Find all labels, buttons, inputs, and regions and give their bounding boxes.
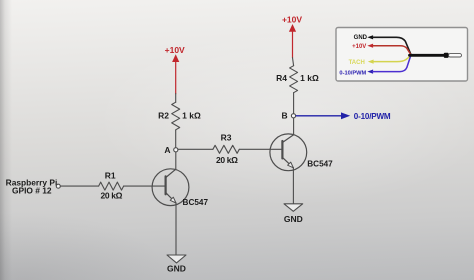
wire Q1 emitter to ground	[175, 203, 177, 255]
output arrow 0-10/PWM	[296, 112, 350, 119]
svg-text:BC547: BC547	[183, 198, 209, 207]
wire R2 to node A	[175, 130, 177, 148]
power arrow +10V left	[172, 54, 179, 93]
inset connector pin	[449, 54, 462, 57]
inset connector crimp	[444, 53, 449, 58]
svg-text:0-10/PWM: 0-10/PWM	[339, 70, 366, 76]
transistor Q2	[270, 134, 307, 171]
inset +10V arrowhead	[367, 44, 373, 48]
svg-text:R4: R4	[276, 73, 287, 83]
resistor R4	[290, 66, 298, 93]
svg-text:GND: GND	[167, 264, 186, 274]
resistor R2	[172, 102, 180, 130]
svg-text:R2: R2	[158, 110, 169, 120]
wire R1 to Q1 base	[124, 185, 165, 187]
inset GND wire (black)	[373, 37, 411, 54]
R1 value labels	[100, 171, 122, 201]
transistor Q1	[152, 169, 189, 206]
svg-text:1 kΩ: 1 kΩ	[182, 111, 201, 121]
R2 value labels	[158, 110, 201, 120]
power arrow +10V right	[289, 24, 296, 58]
wire R3 to Q2 base	[239, 148, 282, 150]
wire Q2 emitter to ground	[292, 168, 294, 204]
node B	[291, 114, 295, 118]
svg-text:GND: GND	[284, 214, 303, 224]
inset cable sheath	[410, 54, 446, 57]
wire node B to Q2 collector	[293, 118, 295, 135]
inset cable photo box	[336, 28, 468, 82]
resistor R1	[99, 182, 124, 190]
svg-text:0-10/PWM: 0-10/PWM	[354, 112, 391, 121]
svg-text:B: B	[282, 111, 288, 121]
svg-text:20 kΩ: 20 kΩ	[216, 155, 238, 165]
Raspberry Pi GPIO # 12 label	[6, 177, 58, 195]
svg-text:A: A	[164, 145, 170, 155]
svg-text:R1: R1	[105, 171, 116, 181]
wire arrow to R4	[293, 58, 294, 66]
inset GND arrowhead	[367, 35, 373, 39]
inset 0-10/PWM arrowhead	[367, 70, 373, 74]
node A	[174, 148, 178, 152]
R4 value labels	[276, 73, 319, 83]
R3 value labels	[216, 133, 238, 165]
svg-text:R3: R3	[221, 133, 232, 143]
wire arrow to R2	[175, 94, 177, 103]
svg-text:+10V: +10V	[165, 45, 185, 55]
wire node A to Q1 collector	[175, 152, 177, 169]
wire R4 to node B	[293, 93, 295, 114]
inset 0-10/PWM wire (blue)	[373, 55, 411, 71]
svg-text:1 kΩ: 1 kΩ	[300, 73, 319, 83]
svg-text:GPIO # 12: GPIO # 12	[12, 186, 52, 196]
inset TACH wire (yellow)	[373, 56, 411, 62]
svg-text:20 kΩ: 20 kΩ	[100, 191, 122, 201]
input terminal	[56, 184, 60, 188]
resistor R3	[213, 145, 239, 153]
ground (Q2)	[284, 204, 303, 212]
svg-text:TACH: TACH	[349, 60, 365, 66]
inset TACH arrowhead	[368, 60, 374, 64]
svg-text:BC547: BC547	[307, 159, 333, 168]
wire node A to R3	[178, 148, 213, 150]
ground (Q1)	[167, 255, 186, 263]
inset +10V wire (red)	[373, 46, 411, 55]
svg-text:+10V: +10V	[352, 44, 366, 50]
svg-text:+10V: +10V	[282, 15, 302, 25]
svg-text:GND: GND	[354, 35, 368, 41]
wire input to R1	[60, 185, 98, 187]
